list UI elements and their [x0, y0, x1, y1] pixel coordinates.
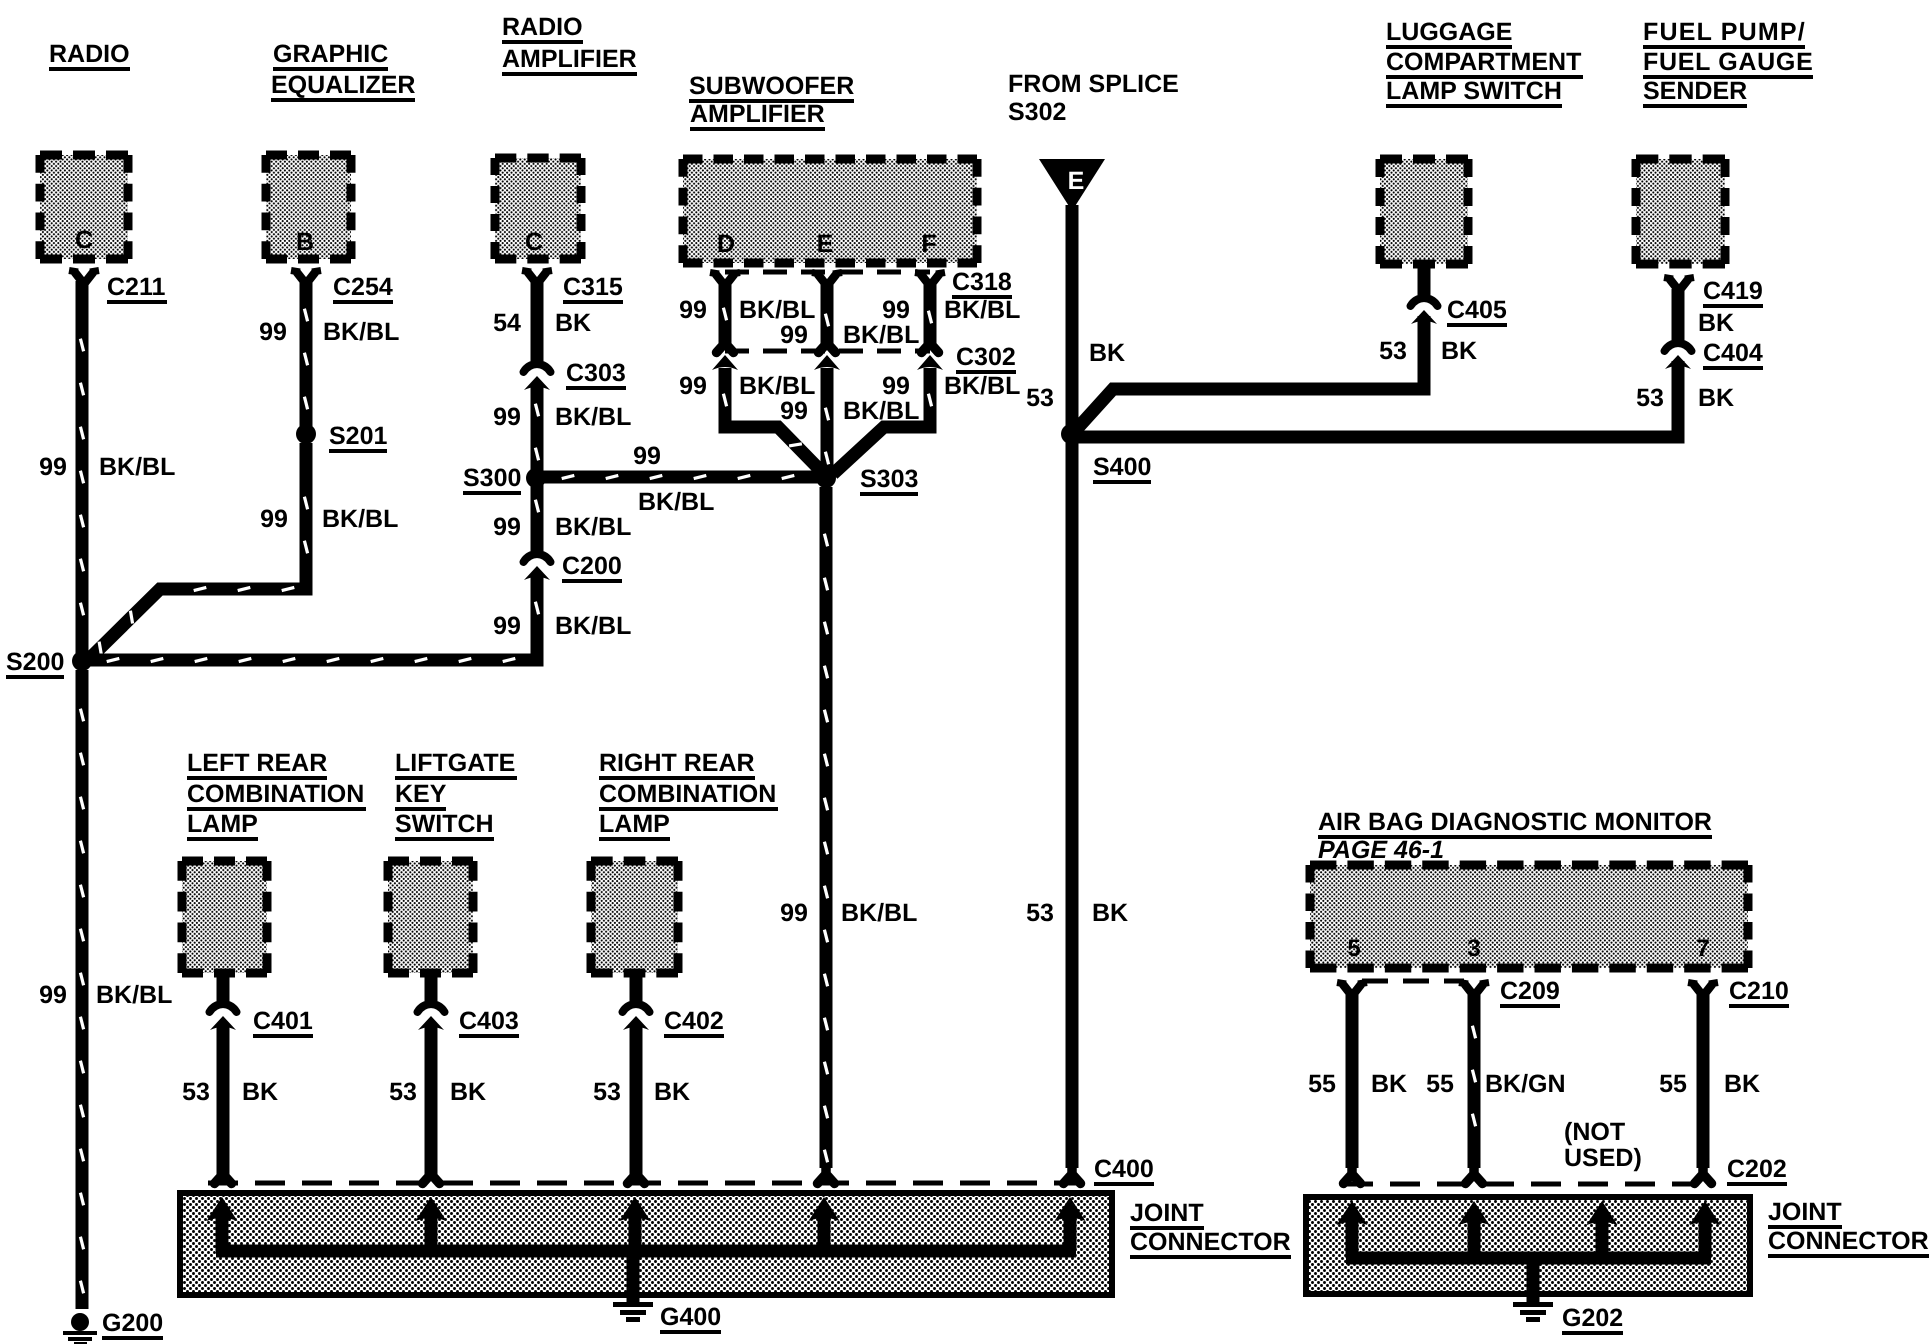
svg-text:99: 99 [39, 981, 67, 1009]
splice S201 [296, 424, 316, 444]
svg-text:S302: S302 [1008, 98, 1066, 126]
connector fork air bag pin 5 [1343, 985, 1361, 1001]
svg-text:SWITCH: SWITCH [395, 810, 494, 838]
connector C211 fork [75, 273, 93, 289]
connector C318 dashed interface line [725, 270, 930, 275]
svg-text:USED): USED) [1564, 1144, 1642, 1172]
wire BK C404 to C419 [1672, 289, 1685, 347]
svg-text:BK/BL: BK/BL [322, 505, 398, 533]
connector box RADIO pin C [40, 155, 128, 259]
splice S400 [1061, 424, 1081, 444]
connector C402 inline [623, 1004, 650, 1012]
svg-text:BK/BL: BK/BL [555, 612, 631, 640]
svg-text:BK: BK [1441, 337, 1477, 365]
svg-text:BK/BL: BK/BL [944, 296, 1020, 324]
svg-text:C211: C211 [107, 273, 165, 301]
joint connector G400 box [180, 1193, 1112, 1295]
connector C254 fork [297, 273, 315, 289]
svg-text:BK: BK [1371, 1070, 1407, 1098]
connector C302 arrow pin D [712, 355, 738, 370]
splice S200 [72, 651, 92, 671]
connector C302 arrow pin E [814, 355, 840, 370]
svg-text:C302: C302 [956, 343, 1016, 371]
svg-text:BK: BK [654, 1078, 690, 1106]
wire BK air bag pin 5 [1346, 994, 1359, 1168]
wire radio amp BK/BL S300 to C200 [531, 484, 544, 552]
svg-text:EQUALIZER: EQUALIZER [271, 71, 415, 99]
svg-text:BK/BL: BK/BL [739, 296, 815, 324]
svg-text:99: 99 [679, 296, 707, 324]
svg-text:C315: C315 [563, 273, 623, 301]
wire right rear lamp stub [630, 971, 643, 1006]
svg-text:BK/GN: BK/GN [1485, 1070, 1566, 1098]
connector C202 feet pin 5 wire [1344, 1168, 1361, 1184]
svg-text:BK: BK [555, 309, 591, 337]
svg-text:LAMP: LAMP [187, 810, 258, 838]
svg-text:C254: C254 [333, 273, 393, 301]
connector C318 fork pin F [921, 275, 939, 291]
svg-text:(NOT: (NOT [1564, 1118, 1625, 1146]
svg-text:S300: S300 [463, 464, 521, 492]
svg-text:C403: C403 [459, 1007, 519, 1035]
connector box RIGHT REAR COMBINATION LAMP [591, 861, 678, 973]
svg-text:C401: C401 [253, 1007, 313, 1035]
svg-text:G200: G200 [102, 1309, 163, 1337]
svg-text:54: 54 [493, 309, 521, 337]
svg-text:99: 99 [260, 505, 288, 533]
splice source triangle E [1039, 159, 1105, 211]
svg-text:BK: BK [1724, 1070, 1760, 1098]
svg-text:BK: BK [1698, 384, 1734, 412]
svg-text:C405: C405 [1447, 296, 1507, 324]
wire subwoofer pin F upper segment [924, 283, 937, 344]
splice S300 [526, 468, 546, 488]
svg-text:53: 53 [1379, 337, 1407, 365]
connector C209 dashed interface line [1362, 979, 1464, 984]
svg-text:BK/BL: BK/BL [555, 513, 631, 541]
connector box AIR BAG DIAGNOSTIC MONITOR pins 5 3 7 [1310, 865, 1748, 968]
svg-text:99: 99 [780, 397, 808, 425]
wire radio amp BK/BL C200 to S200 horizontal [88, 576, 537, 660]
svg-text:BK/BL: BK/BL [739, 372, 815, 400]
connector C202 dashed interface line [1343, 1182, 1695, 1187]
svg-text:BK: BK [1089, 339, 1125, 367]
svg-text:S303: S303 [860, 465, 918, 493]
svg-text:C419: C419 [1703, 277, 1763, 305]
wire equalizer BK/BL vertical [300, 281, 313, 434]
connector C202 feet pin 7 wire [1695, 1168, 1712, 1184]
svg-text:C: C [75, 226, 93, 254]
svg-text:55: 55 [1426, 1070, 1454, 1098]
wire radio amp 54 BK [531, 281, 544, 366]
wire pin F to splice S303 [833, 368, 930, 474]
svg-text:99: 99 [259, 318, 287, 346]
connector box LEFT REAR COMBINATION LAMP [182, 861, 267, 973]
wire BK air bag pin 7 [1697, 994, 1710, 1168]
connector C400 feet subwoofer wire [818, 1168, 835, 1184]
wire BK/GN air bag pin 3 [1468, 994, 1481, 1168]
svg-text:7: 7 [1696, 935, 1709, 962]
svg-text:C303: C303 [566, 359, 626, 387]
svg-text:G400: G400 [660, 1303, 721, 1331]
connector C318 fork pin E [818, 275, 836, 291]
svg-text:BK/BL: BK/BL [638, 488, 714, 516]
svg-text:BK/BL: BK/BL [944, 372, 1020, 400]
svg-text:FROM SPLICE: FROM SPLICE [1008, 70, 1179, 98]
ground G200 [71, 1313, 89, 1331]
ground G400 [613, 1302, 653, 1307]
svg-text:BK/BL: BK/BL [841, 899, 917, 927]
wire liftgate key switch stub [425, 971, 438, 1006]
connector C400 feet liftgate wire [423, 1168, 440, 1184]
svg-text:BK/BL: BK/BL [99, 453, 175, 481]
wire equalizer BK/BL to S200 [86, 443, 306, 662]
svg-text:BK/BL: BK/BL [96, 981, 172, 1009]
svg-text:D: D [717, 230, 735, 258]
svg-text:LIFTGATE: LIFTGATE [395, 749, 515, 777]
connector box LIFTGATE KEY SWITCH [388, 861, 473, 973]
svg-text:53: 53 [182, 1078, 210, 1106]
svg-text:GRAPHIC: GRAPHIC [273, 40, 388, 68]
svg-text:53: 53 [1636, 384, 1664, 412]
svg-text:99: 99 [493, 612, 521, 640]
svg-text:99: 99 [39, 453, 67, 481]
svg-text:SENDER: SENDER [1643, 77, 1747, 105]
connector box LUGGAGE COMPARTMENT LAMP SWITCH [1380, 159, 1468, 264]
joint connector G202 bus [1346, 1252, 1711, 1265]
svg-text:JOINT: JOINT [1768, 1198, 1842, 1226]
ground G202 [1513, 1302, 1553, 1307]
svg-text:E: E [817, 230, 834, 258]
svg-text:C402: C402 [664, 1007, 724, 1035]
svg-text:99: 99 [882, 296, 910, 324]
svg-text:AMPLIFIER: AMPLIFIER [690, 100, 825, 128]
svg-text:F: F [921, 230, 936, 258]
connector C202 feet pin 3 wire [1466, 1168, 1483, 1184]
connector C400 feet right lamp wire [628, 1168, 645, 1184]
svg-text:S400: S400 [1093, 453, 1151, 481]
connector C401 inline [210, 1004, 237, 1012]
svg-text:5: 5 [1347, 935, 1360, 962]
svg-text:53: 53 [1026, 899, 1054, 927]
connector C302 feet pin E [819, 337, 836, 353]
connector C400 dashed interface line [208, 1181, 1090, 1186]
svg-text:B: B [296, 228, 314, 256]
svg-text:COMBINATION: COMBINATION [599, 780, 776, 808]
connector C315 fork [528, 273, 546, 289]
wire BK liftgate to joint connector [425, 1026, 438, 1175]
svg-text:CONNECTOR: CONNECTOR [1130, 1228, 1291, 1256]
wire pin D to splice S303 [725, 368, 822, 472]
connector C302 feet pin F [922, 337, 939, 353]
svg-text:SUBWOOFER: SUBWOOFER [689, 72, 854, 100]
svg-text:BK: BK [242, 1078, 278, 1106]
wire BK right rear lamp to joint connector [630, 1026, 643, 1175]
wire BK left rear lamp to joint connector [217, 1026, 230, 1175]
svg-text:BK/BL: BK/BL [843, 321, 919, 349]
svg-text:C400: C400 [1094, 1155, 1154, 1183]
svg-text:LAMP: LAMP [599, 810, 670, 838]
wire BK S400 to luggage switch [1075, 316, 1424, 431]
svg-text:LAMP SWITCH: LAMP SWITCH [1386, 77, 1562, 105]
svg-text:99: 99 [780, 321, 808, 349]
svg-text:PAGE 46-1: PAGE 46-1 [1318, 836, 1444, 864]
connector C419 fork [1670, 280, 1688, 296]
wire BK/BL S300 to S303 [543, 471, 820, 484]
splice S303 [816, 468, 836, 488]
svg-text:S200: S200 [6, 648, 64, 676]
wire BK S400 to joint connector [1066, 441, 1079, 1168]
connector C302 dashed interface line [725, 349, 930, 354]
svg-text:COMPARTMENT: COMPARTMENT [1386, 48, 1581, 76]
svg-text:RIGHT REAR: RIGHT REAR [599, 749, 755, 777]
svg-text:99: 99 [633, 442, 661, 470]
svg-text:CONNECTOR: CONNECTOR [1768, 1227, 1929, 1255]
connector C403 inline [418, 1004, 445, 1012]
svg-text:LEFT REAR: LEFT REAR [187, 749, 327, 777]
svg-text:C404: C404 [1703, 339, 1763, 367]
connector fork air bag pin 7 [1694, 985, 1712, 1001]
connector box SUBWOOFER AMPLIFIER pins D E F [683, 159, 977, 263]
wire subwoofer pin E upper segment [821, 283, 834, 344]
svg-text:FUEL PUMP/: FUEL PUMP/ [1643, 18, 1806, 46]
svg-text:99: 99 [493, 513, 521, 541]
svg-text:FUEL GAUGE: FUEL GAUGE [1643, 48, 1813, 76]
connector C303 inline [524, 364, 551, 372]
svg-text:C202: C202 [1727, 1155, 1787, 1183]
wire radio BK/BL to ground [76, 670, 89, 1309]
wire pin E through S303 [821, 368, 834, 472]
svg-text:3: 3 [1467, 935, 1480, 962]
connector box GRAPHIC EQUALIZER pin B [266, 155, 351, 259]
wire left rear lamp stub [217, 971, 230, 1006]
svg-text:RADIO: RADIO [49, 40, 130, 68]
svg-text:C200: C200 [562, 552, 622, 580]
svg-text:KEY: KEY [395, 780, 447, 808]
svg-text:53: 53 [593, 1078, 621, 1106]
svg-text:C210: C210 [1729, 977, 1789, 1005]
joint connector G202 box [1306, 1197, 1750, 1294]
svg-text:G202: G202 [1562, 1304, 1623, 1332]
svg-text:C318: C318 [952, 268, 1012, 296]
svg-text:BK: BK [450, 1078, 486, 1106]
wire subwoofer pin D upper segment [719, 283, 732, 344]
svg-text:AMPLIFIER: AMPLIFIER [502, 45, 637, 73]
svg-text:99: 99 [679, 372, 707, 400]
wire luggage switch stub [1418, 262, 1431, 302]
wire radio BK/BL vertical [76, 281, 89, 656]
svg-text:99: 99 [882, 372, 910, 400]
wire BK triangle to S400 [1066, 205, 1079, 428]
svg-text:55: 55 [1308, 1070, 1336, 1098]
svg-text:BK: BK [1092, 899, 1128, 927]
svg-text:COMBINATION: COMBINATION [187, 780, 364, 808]
svg-text:E: E [1068, 167, 1085, 195]
wire radio amp BK/BL C303 to S300 [531, 386, 544, 472]
wire BK S400 to fuel sender [1078, 361, 1678, 437]
svg-text:RADIO: RADIO [502, 13, 583, 41]
connector C302 arrow pin F [917, 355, 943, 370]
connector C302 feet pin D [717, 337, 734, 353]
svg-text:LUGGAGE: LUGGAGE [1386, 18, 1512, 46]
connector C400 feet left lamp wire [215, 1168, 232, 1184]
svg-text:S201: S201 [329, 422, 387, 450]
svg-text:C209: C209 [1500, 977, 1560, 1005]
connector C200 inline [524, 554, 551, 562]
svg-text:C: C [525, 228, 543, 256]
svg-text:AIR BAG DIAGNOSTIC MONITOR: AIR BAG DIAGNOSTIC MONITOR [1318, 808, 1712, 836]
svg-text:53: 53 [389, 1078, 417, 1106]
wire BK/BL S303 to joint connector [820, 487, 833, 1168]
svg-text:BK/BL: BK/BL [555, 403, 631, 431]
svg-text:JOINT: JOINT [1130, 1199, 1204, 1227]
svg-text:99: 99 [780, 899, 808, 927]
svg-text:55: 55 [1659, 1070, 1687, 1098]
svg-text:53: 53 [1026, 384, 1054, 412]
svg-text:BK/BL: BK/BL [323, 318, 399, 346]
connector C318 fork pin D [716, 275, 734, 291]
connector C405 inline [1411, 298, 1438, 306]
connector C400 feet S400 wire [1064, 1168, 1081, 1184]
svg-text:BK: BK [1698, 309, 1734, 337]
joint connector G400 bus [216, 1245, 1076, 1258]
connector C404 inline [1665, 343, 1692, 351]
svg-text:99: 99 [493, 403, 521, 431]
connector fork air bag pin 3 [1465, 985, 1483, 1001]
connector box RADIO AMPLIFIER pin C [495, 158, 581, 259]
connector box FUEL PUMP/FUEL GAUGE SENDER [1636, 159, 1725, 264]
